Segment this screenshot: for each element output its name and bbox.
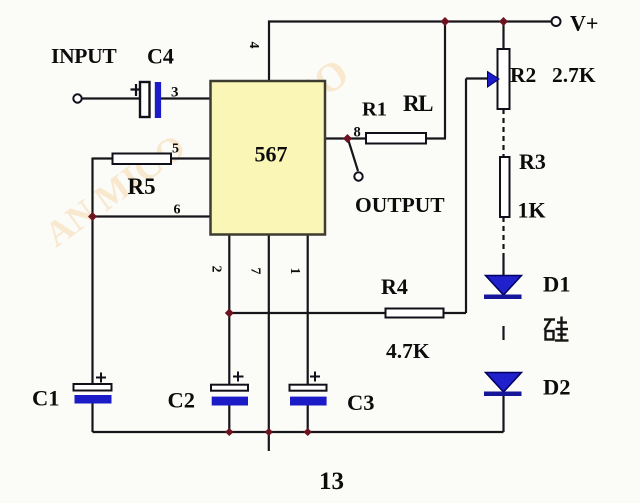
capacitor C2 plate top <box>211 385 248 391</box>
capacitor C4 polarity plus <box>131 84 142 96</box>
svg-text:C2: C2 <box>168 388 196 413</box>
svg-text:7: 7 <box>248 268 263 275</box>
wire R4 right <box>444 312 467 314</box>
wire solid above D1 <box>502 258 504 277</box>
capacitor C3 plate bottom <box>290 397 327 406</box>
svg-text:D1: D1 <box>543 272 571 297</box>
junction pin6 node <box>88 212 97 221</box>
svg-text:13: 13 <box>319 468 344 495</box>
svg-text:3: 3 <box>171 85 179 101</box>
diode D1 triangle <box>486 276 522 296</box>
junction top rail left <box>441 17 450 26</box>
wire pin1 vertical <box>307 235 309 385</box>
wire pin6 horizontal <box>93 215 211 217</box>
capacitor C4 plate right <box>155 82 161 118</box>
svg-text:4: 4 <box>246 42 261 49</box>
capacitor C1 polarity plus <box>96 373 106 383</box>
wire C3 bottom <box>307 406 309 433</box>
capacitor C2 plate bottom <box>212 397 248 406</box>
terminal OUTPUT circle <box>354 172 362 180</box>
svg-text:2: 2 <box>209 266 224 273</box>
wire C1 bottom <box>91 404 93 433</box>
svg-text:D2: D2 <box>543 375 571 400</box>
wire D2 to bottom rail <box>502 396 504 432</box>
capacitor C3 plate top <box>290 385 327 391</box>
wire pin2 vertical <box>228 235 230 385</box>
svg-text:4.7K: 4.7K <box>386 339 430 363</box>
terminal INPUT circle <box>73 94 81 102</box>
svg-text:1K: 1K <box>518 198 546 223</box>
wire top rail <box>268 20 552 22</box>
svg-text:INPUT: INPUT <box>51 44 117 68</box>
potentiometer R2 body <box>498 49 510 109</box>
svg-text:R1: R1 <box>362 99 387 121</box>
capacitor C2 polarity plus <box>233 372 244 382</box>
resistor R4 body <box>386 309 444 318</box>
svg-text:567: 567 <box>255 142 288 167</box>
wire C2 bottom <box>228 406 230 433</box>
diode D2 cathode bar <box>484 392 522 397</box>
svg-text:5: 5 <box>172 142 179 157</box>
wire pin4 vertical <box>268 21 270 83</box>
wire pin7 vertical <box>268 235 270 433</box>
wire R4 left <box>229 312 385 314</box>
resistor R3 body <box>500 157 510 217</box>
svg-text:C4: C4 <box>147 44 174 69</box>
capacitor C1 plate top <box>74 384 112 391</box>
capacitor C4 plate left <box>140 82 150 117</box>
terminal V+ circle <box>552 17 561 26</box>
junction R4 node <box>225 309 234 318</box>
wire right vertical to R1 <box>444 22 446 139</box>
junction bottom rail C3 <box>304 428 312 436</box>
svg-text:2.7K: 2.7K <box>552 63 596 87</box>
wire dash D1 to D2 <box>502 326 504 340</box>
wire left vertical <box>91 158 93 385</box>
svg-text:1: 1 <box>287 268 302 275</box>
op-amp U1 IC 567 body <box>211 81 326 235</box>
svg-text:RL: RL <box>403 91 433 116</box>
diode D1 cathode bar <box>484 295 522 300</box>
svg-text:V+: V+ <box>570 11 598 36</box>
wire R5 to pin5 <box>171 157 211 159</box>
wire input to C4 <box>82 97 141 99</box>
svg-text:R3: R3 <box>519 149 546 174</box>
svg-text:8: 8 <box>354 125 361 141</box>
svg-text:OUTPUT: OUTPUT <box>355 193 445 217</box>
wire wiper vertical <box>465 79 467 314</box>
resistor R1 body <box>366 133 426 144</box>
svg-text:C1: C1 <box>32 386 60 411</box>
junction bottom rail pin7 <box>265 428 273 436</box>
junction pin8 node <box>343 134 352 143</box>
svg-text:R4: R4 <box>381 274 408 299</box>
wire bottom rail <box>93 431 504 433</box>
watermark diagonal text <box>37 50 357 255</box>
label silicon character gui <box>544 317 569 342</box>
wire R1 right <box>426 137 446 139</box>
wire R2 top <box>502 22 504 50</box>
junction bottom rail C2 <box>225 428 233 436</box>
diode D2 triangle <box>486 373 522 393</box>
capacitor C1 plate bottom <box>75 395 112 404</box>
wire junction to output <box>348 139 358 171</box>
wire C4 to pin3 <box>161 97 211 99</box>
capacitor C3 polarity plus <box>310 372 320 382</box>
junction top rail right <box>499 17 508 26</box>
wire pin8 to R1 <box>325 137 366 139</box>
wire dashed R2 to R3 <box>502 109 504 157</box>
wire R5 left <box>93 157 113 159</box>
wire pin7 stub below rail <box>268 432 270 451</box>
svg-text:C3: C3 <box>347 390 375 415</box>
svg-text:R2: R2 <box>510 63 536 87</box>
wire dashed R3 to D1 <box>502 217 504 258</box>
svg-text:R5: R5 <box>128 174 156 199</box>
resistor R5 body <box>113 154 172 165</box>
potentiometer R2 wiper arrow <box>488 72 500 88</box>
wire wiper horizontal <box>466 77 488 79</box>
svg-text:6: 6 <box>174 203 181 218</box>
